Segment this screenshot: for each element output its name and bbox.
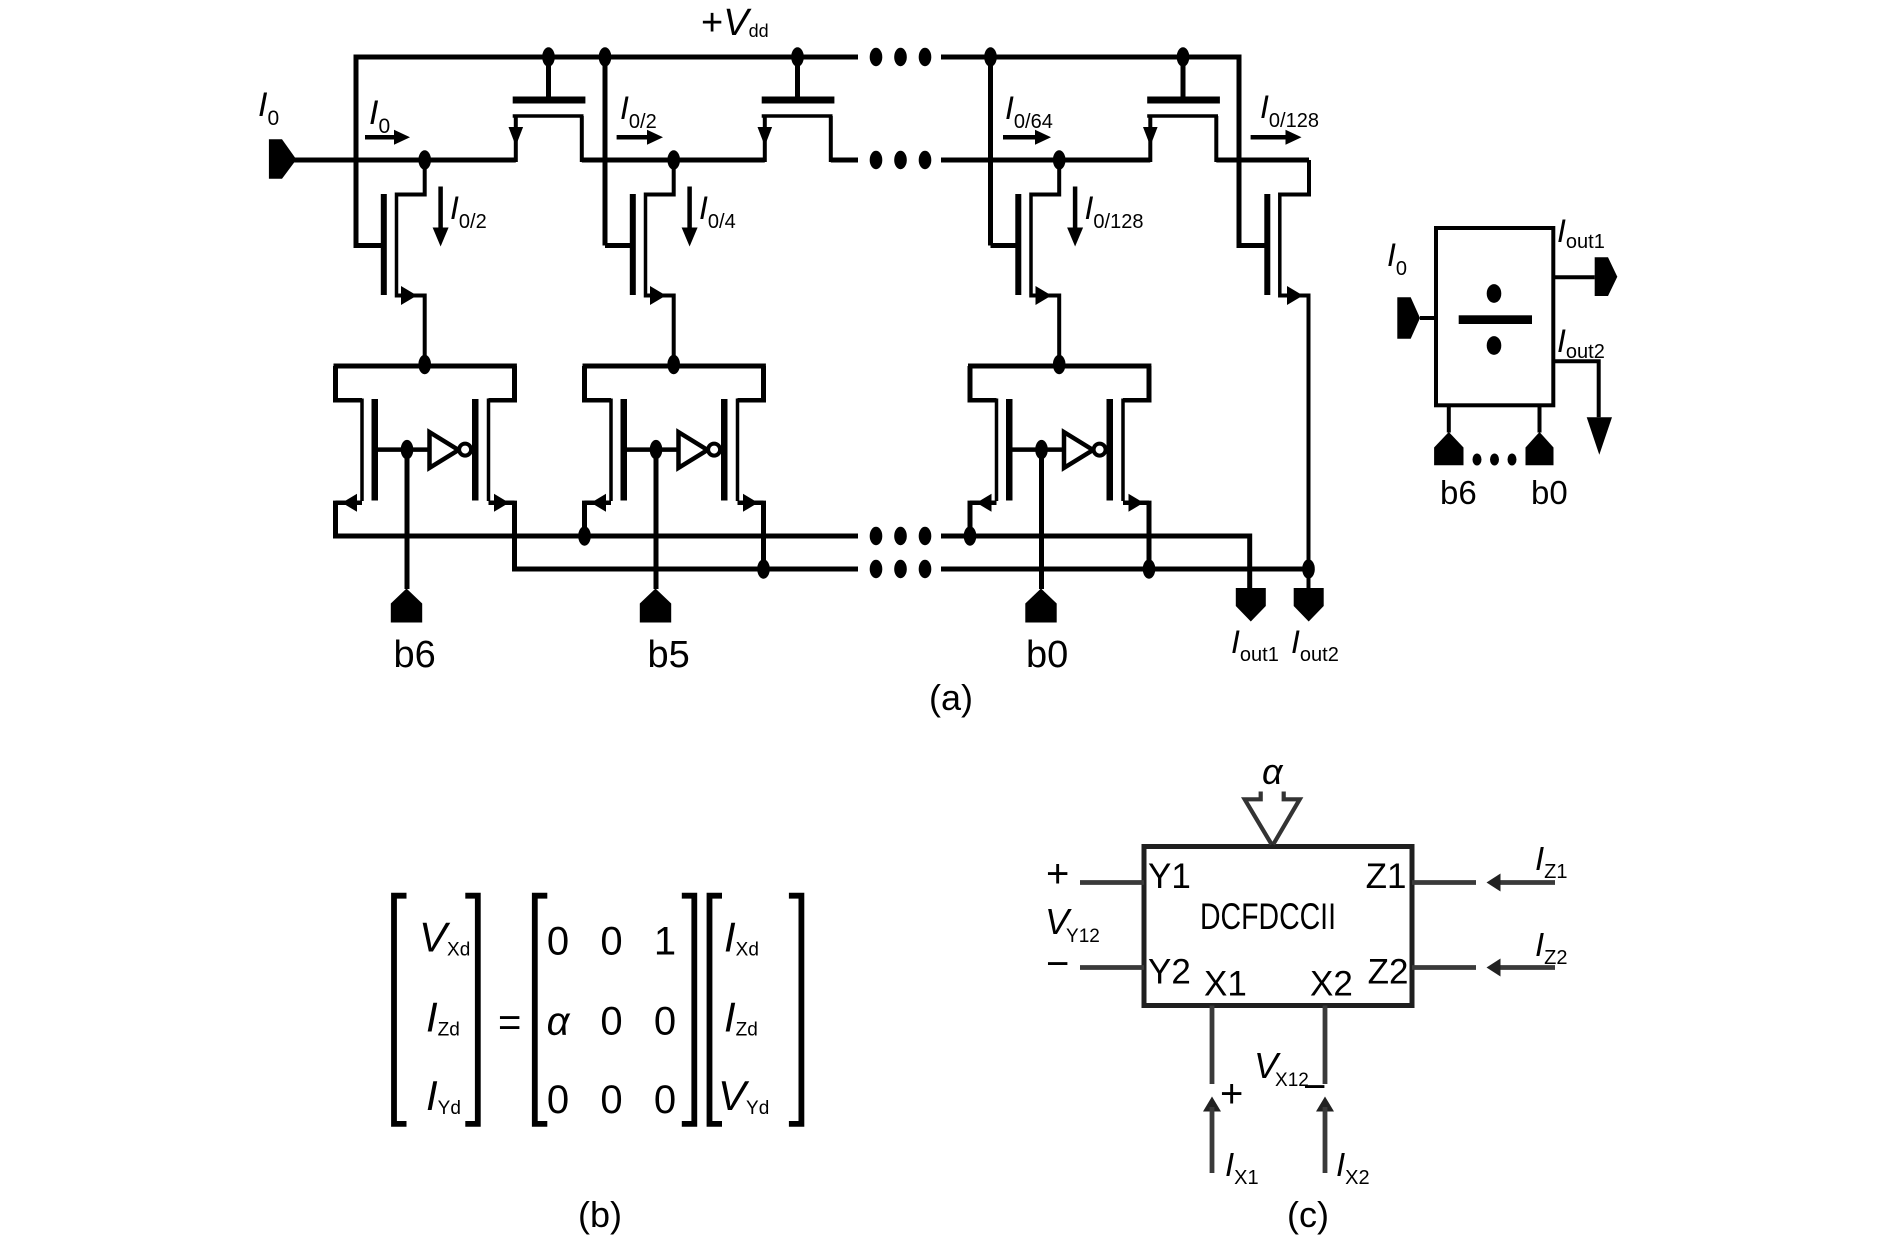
svg-text:α: α: [1262, 751, 1284, 792]
svg-text:b6: b6: [394, 634, 436, 676]
svg-text:(b): (b): [578, 1194, 622, 1235]
svg-text:0: 0: [600, 1078, 622, 1122]
svg-text:0: 0: [547, 1078, 569, 1122]
svg-text:X1: X1: [1204, 965, 1247, 1004]
svg-text:(a): (a): [929, 677, 973, 718]
svg-text:b6: b6: [1440, 474, 1477, 511]
svg-text:0: 0: [600, 1000, 622, 1044]
svg-text:(c): (c): [1287, 1194, 1329, 1235]
svg-text:=: =: [498, 1001, 521, 1045]
svg-text:−: −: [1046, 942, 1069, 986]
svg-text:DCFDCCII: DCFDCCII: [1200, 896, 1336, 937]
svg-text:0: 0: [600, 920, 622, 964]
svg-text:Y1: Y1: [1148, 857, 1191, 896]
svg-text:α: α: [547, 1000, 571, 1044]
svg-text:X2: X2: [1310, 965, 1353, 1004]
svg-text:Y2: Y2: [1148, 953, 1191, 992]
svg-text:0: 0: [654, 1078, 676, 1122]
svg-text:b0: b0: [1026, 634, 1068, 676]
svg-text:+: +: [1046, 852, 1069, 896]
svg-text:b5: b5: [648, 634, 690, 676]
svg-text:+: +: [1220, 1072, 1243, 1116]
svg-text:1: 1: [654, 920, 676, 964]
svg-text:0: 0: [654, 1000, 676, 1044]
svg-text:0: 0: [547, 920, 569, 964]
svg-text:b0: b0: [1531, 474, 1568, 511]
svg-text:Z1: Z1: [1366, 857, 1407, 896]
svg-text:Z2: Z2: [1368, 953, 1409, 992]
